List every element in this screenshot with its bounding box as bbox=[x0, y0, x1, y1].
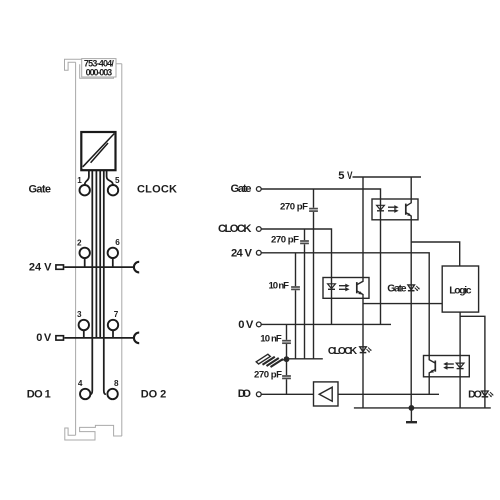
opto U1 emitter down bbox=[410, 220, 412, 408]
LED CLOCK indicator bbox=[360, 347, 372, 353]
capacitor C3 10nF bbox=[291, 287, 300, 289]
terminal 6 bbox=[108, 248, 118, 258]
terminal 4 bbox=[80, 389, 90, 399]
terminal 7 bbox=[108, 320, 118, 330]
wire 24V to opto U3 collector bbox=[261, 253, 429, 356]
opto U3 LED cathode to ground bbox=[459, 377, 461, 408]
svg-text:0: 0 bbox=[36, 332, 42, 344]
svg-text:3: 3 bbox=[77, 310, 82, 319]
wire driver to DO output bbox=[338, 393, 439, 395]
opto U3 box bbox=[424, 356, 470, 377]
opto U1 box bbox=[372, 199, 418, 220]
svg-text:8: 8 bbox=[114, 379, 119, 388]
wire 5V rail bbox=[353, 176, 422, 178]
svg-text:DO: DO bbox=[238, 388, 251, 400]
terminal DO bbox=[256, 392, 261, 397]
svg-text:7: 7 bbox=[114, 310, 119, 319]
svg-text:Logic: Logic bbox=[449, 286, 472, 297]
svg-text:CLOCK: CLOCK bbox=[218, 223, 252, 235]
ground junction dot bbox=[409, 405, 415, 411]
opto U2 arrows bbox=[339, 284, 350, 292]
svg-text:V: V bbox=[347, 170, 353, 182]
opto U3 phototransistor bbox=[429, 356, 435, 377]
svg-text:6: 6 bbox=[115, 238, 120, 247]
wire square to terminal 8 bbox=[104, 171, 106, 394]
driver box bbox=[314, 382, 339, 406]
order label box 753-404/000-003 bbox=[80, 64, 114, 78]
wire 5V to opto U2 collector bbox=[362, 177, 364, 278]
opto U2 LED cathode to 0V bbox=[331, 298, 333, 324]
svg-text:Gate: Gate bbox=[29, 183, 52, 195]
svg-text:10 nF: 10 nF bbox=[269, 281, 290, 292]
terminal 8 bbox=[107, 389, 117, 399]
0V male plug symbol bbox=[56, 336, 64, 340]
wire square to terminal 5 bbox=[107, 171, 113, 185]
svg-text:V: V bbox=[44, 332, 52, 344]
shield symbol bbox=[256, 354, 286, 367]
svg-text:CLOCK: CLOCK bbox=[328, 346, 358, 357]
svg-text:5: 5 bbox=[115, 176, 120, 185]
driver triangle bbox=[319, 387, 332, 401]
capacitor C4 10nF wire bbox=[286, 324, 288, 394]
svg-text:270 pF: 270 pF bbox=[254, 369, 282, 380]
shield collect rail bbox=[287, 358, 323, 360]
shield junction dot bbox=[284, 356, 290, 362]
wire 0V rail bbox=[261, 323, 391, 325]
svg-text:270 pF: 270 pF bbox=[280, 202, 308, 213]
opto U2 box bbox=[323, 278, 369, 299]
24V male plug symbol bbox=[56, 265, 64, 269]
opto U1 LED cathode to 0V bbox=[380, 220, 382, 325]
wire square to terminal 1 bbox=[85, 171, 89, 185]
terminal 0V bbox=[256, 322, 261, 327]
0V rail wire bbox=[64, 337, 134, 339]
terminal 6 stub to 24V rail bbox=[112, 258, 114, 267]
wire opto U2 emitter to Logic left bbox=[363, 303, 442, 305]
capacitor C1 270pF bbox=[309, 209, 318, 212]
0V clamp connector bbox=[134, 333, 139, 344]
svg-text:Gate: Gate bbox=[387, 284, 407, 295]
capacitor C4 10nF bbox=[282, 341, 291, 344]
svg-text:CLOCK: CLOCK bbox=[137, 183, 177, 195]
module foot bbox=[65, 425, 122, 440]
svg-text:DO: DO bbox=[468, 389, 482, 400]
terminal 2 stub to 24V rail bbox=[84, 258, 86, 267]
opto U3 LED bbox=[456, 356, 464, 377]
opto U3 emitter to DO line bbox=[428, 377, 430, 395]
ground rail bbox=[354, 407, 491, 409]
wire Logic branch to DO LED bbox=[460, 316, 485, 408]
terminal 5 bbox=[108, 185, 118, 195]
24V rail wire bbox=[64, 266, 134, 268]
wire square to 0V rail bbox=[99, 171, 101, 338]
opto U2 LED bbox=[328, 278, 336, 299]
svg-text:000-003: 000-003 bbox=[86, 67, 113, 77]
svg-text:V: V bbox=[246, 319, 254, 331]
terminal 2 bbox=[80, 248, 90, 258]
display square with diagonals bbox=[81, 132, 115, 170]
terminal Gate bbox=[256, 187, 261, 192]
LED Gate indicator bbox=[408, 285, 420, 291]
svg-text:1: 1 bbox=[77, 176, 82, 185]
svg-text:4: 4 bbox=[78, 379, 83, 388]
LED DO indicator bbox=[482, 391, 494, 397]
svg-text:10 nF: 10 nF bbox=[260, 334, 282, 345]
opto U1 LED bbox=[377, 199, 385, 220]
terminal CLOCK bbox=[256, 227, 261, 232]
24V clamp connector bbox=[134, 262, 139, 273]
wire DO to driver bbox=[261, 393, 313, 395]
svg-text:2: 2 bbox=[77, 239, 82, 248]
opto U2 phototransistor bbox=[357, 278, 363, 299]
wire opto U1 emitter to Logic top bbox=[411, 242, 460, 266]
opto U1 phototransistor bbox=[406, 199, 412, 220]
wire square to 0V rail bbox=[95, 171, 97, 338]
module body outline bbox=[76, 62, 122, 436]
wire Gate to opto U1 bbox=[261, 189, 380, 199]
terminal 7 stub to 0V rail bbox=[112, 330, 114, 338]
svg-text:24 V: 24 V bbox=[231, 247, 253, 259]
opto U3 arrows bbox=[443, 362, 454, 370]
terminal 3 bbox=[79, 320, 89, 330]
svg-text:DO 2: DO 2 bbox=[141, 388, 167, 400]
capacitor C2 270pF wire bbox=[304, 229, 306, 359]
wire CLOCK to opto U2 bbox=[261, 229, 331, 283]
terminal 1 bbox=[80, 185, 90, 195]
capacitor C5 270pF bbox=[282, 376, 291, 378]
wire 5V to opto U1 collector bbox=[410, 177, 412, 199]
svg-text:5: 5 bbox=[338, 170, 344, 182]
wire square to terminal 4 bbox=[90, 171, 92, 394]
Logic box bbox=[442, 266, 478, 312]
ground symbol bbox=[410, 408, 412, 421]
svg-text:0: 0 bbox=[238, 319, 244, 331]
opto U2 emitter down to ground bbox=[362, 298, 364, 408]
opto U1 arrows bbox=[388, 205, 399, 213]
svg-text:DO 1: DO 1 bbox=[27, 388, 51, 400]
svg-text:24 V: 24 V bbox=[29, 261, 52, 273]
svg-text:Gate: Gate bbox=[231, 183, 252, 195]
terminal 3 stub to 0V rail bbox=[83, 330, 85, 338]
svg-text:270 pF: 270 pF bbox=[271, 235, 299, 246]
module mounting hook bbox=[65, 59, 82, 70]
wire Logic bottom to opto U3 LED bbox=[459, 312, 461, 355]
capacitor C2 270pF bbox=[300, 241, 309, 243]
terminal 24V bbox=[256, 250, 261, 255]
capacitor C1 270pF wire bbox=[313, 189, 315, 359]
capacitor C3 10nF wire bbox=[295, 253, 297, 359]
